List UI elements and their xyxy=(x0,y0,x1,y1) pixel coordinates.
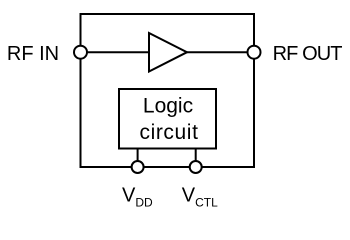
svg-text:VCTL: VCTL xyxy=(182,184,218,209)
amplifier triangle xyxy=(149,33,187,72)
wire logic box to VDD terminal xyxy=(137,149,139,168)
wire input to amplifier xyxy=(80,51,150,53)
svg-text:RF IN: RF IN xyxy=(7,43,59,65)
logic circuit box U1 xyxy=(119,89,216,149)
svg-text:Logic: Logic xyxy=(143,94,193,117)
wire logic box to VCTL terminal xyxy=(195,149,197,168)
svg-text:RF OUT: RF OUT xyxy=(273,43,343,65)
terminal VCTL xyxy=(190,161,202,173)
terminal VDD xyxy=(132,161,144,173)
terminal RF OUT xyxy=(248,46,261,59)
svg-text:VDD: VDD xyxy=(122,184,153,209)
outer enclosure box xyxy=(81,14,255,167)
wire amplifier output xyxy=(186,51,254,53)
terminal RF IN xyxy=(74,46,87,59)
svg-text:circuit: circuit xyxy=(139,121,198,144)
